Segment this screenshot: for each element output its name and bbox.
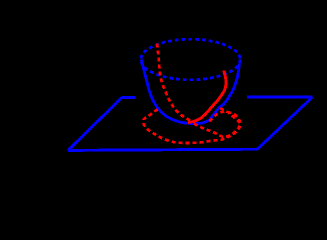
plane bottom edge [68,149,257,150]
plane top edge left segment [122,96,136,99]
rim dashed ellipse [141,39,240,80]
plane left edge [68,97,122,150]
cup outline [141,60,239,124]
small loop dashed [194,112,240,137]
plane right edge [257,97,312,149]
red solid front branch [188,71,226,123]
red dashed back branch [157,44,192,122]
plane top edge right segment [247,95,313,98]
big shadow loop dashed [143,108,240,143]
